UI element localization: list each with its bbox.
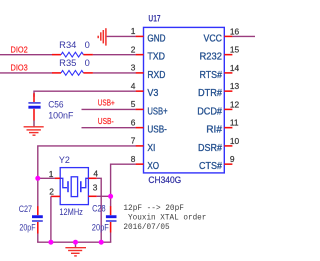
svg-text:4: 4 bbox=[93, 169, 98, 179]
svg-text:8: 8 bbox=[131, 154, 136, 164]
annotation note bbox=[123, 204, 206, 232]
wire crystal pin3 to XO vertical bbox=[97, 195, 111, 197]
wire crystal pin2 down to ground rail bbox=[50, 196, 52, 242]
wire crystal pin1 to XI vertical bbox=[38, 177, 55, 179]
svg-text:3: 3 bbox=[93, 182, 98, 192]
svg-text:USB+: USB+ bbox=[147, 106, 167, 117]
svg-text:20pF: 20pF bbox=[92, 223, 109, 233]
svg-text:16: 16 bbox=[230, 26, 240, 36]
crystal Y2 bbox=[59, 155, 89, 217]
svg-text:Y2: Y2 bbox=[59, 155, 70, 165]
svg-text:2016/07/05: 2016/07/05 bbox=[123, 223, 170, 232]
svg-text:12pF --> 20pF: 12pF --> 20pF bbox=[123, 204, 184, 213]
wire XI pin7 left and down bbox=[38, 146, 136, 207]
wire USB+ to pin 5 bbox=[82, 108, 136, 110]
pin 3 RXD stub bbox=[136, 72, 144, 74]
svg-text:5: 5 bbox=[131, 99, 136, 109]
svg-text:XO: XO bbox=[147, 161, 159, 172]
wire DIO3 left bbox=[0, 72, 52, 74]
pin 5 USB+ stub bbox=[136, 108, 144, 110]
pin 16 VCC stub bbox=[224, 35, 232, 37]
svg-text:DTR#: DTR# bbox=[198, 88, 222, 99]
node junction pin4 to rail bbox=[99, 240, 104, 245]
capacitor C56 bbox=[28, 93, 73, 126]
wire VCC pin16 to right edge bbox=[232, 35, 255, 37]
svg-text:DIO2: DIO2 bbox=[11, 44, 28, 54]
wire USB- to pin 6 bbox=[82, 127, 136, 129]
pin 15 R232 stub bbox=[224, 54, 232, 56]
svg-text:GND: GND bbox=[147, 33, 165, 44]
ground GND1 rotated left of pin 1 bbox=[98, 28, 106, 45]
svg-text:C28: C28 bbox=[92, 204, 106, 214]
svg-text:V3: V3 bbox=[147, 88, 158, 99]
wire R34 to pin 2 bbox=[93, 54, 136, 56]
svg-text:11: 11 bbox=[230, 118, 239, 128]
wire crystal pin4 right and down to ground rail bbox=[97, 178, 101, 242]
pin 8 XO stub bbox=[136, 163, 144, 165]
svg-text:7: 7 bbox=[131, 136, 136, 146]
wire DIO2 left bbox=[0, 54, 52, 56]
node junction XO-crystal pin3 bbox=[108, 194, 113, 199]
crystal pin 2 stub bbox=[51, 195, 60, 197]
svg-text:CH340G: CH340G bbox=[148, 175, 181, 185]
pin 13 DTR# stub bbox=[224, 90, 232, 92]
wire pin1 to ground bbox=[107, 35, 136, 37]
svg-text:9: 9 bbox=[230, 154, 235, 164]
wire C27 down to rail bbox=[37, 234, 39, 243]
svg-text:CTS#: CTS# bbox=[199, 161, 222, 172]
svg-text:10: 10 bbox=[230, 136, 240, 146]
svg-text:USB-: USB- bbox=[98, 116, 114, 126]
pin 7 XI stub bbox=[136, 145, 144, 147]
pin 4 V3 stub bbox=[136, 90, 144, 92]
svg-text:C56: C56 bbox=[48, 99, 63, 109]
svg-text:12MHz: 12MHz bbox=[59, 207, 83, 217]
crystal pin 4 stub bbox=[88, 177, 96, 179]
pin 11 RI# stub bbox=[224, 127, 232, 129]
resistor R35 bbox=[52, 58, 93, 75]
resistor R34 bbox=[52, 40, 93, 57]
svg-text:13: 13 bbox=[230, 81, 240, 91]
svg-text:RXD: RXD bbox=[147, 70, 165, 81]
svg-text:12: 12 bbox=[230, 99, 240, 109]
pin 1 GND stub bbox=[136, 35, 144, 37]
svg-text:14: 14 bbox=[230, 63, 240, 73]
pin 2 TXD stub bbox=[136, 54, 144, 56]
svg-text:RI#: RI# bbox=[206, 125, 222, 136]
crystal pin 1 stub bbox=[55, 177, 61, 179]
svg-text:1: 1 bbox=[49, 169, 54, 179]
pin 6 USB- stub bbox=[136, 127, 144, 129]
wire XO pin8 left and down bbox=[111, 164, 136, 206]
svg-text:100nF: 100nF bbox=[48, 111, 74, 121]
svg-text:R35: R35 bbox=[59, 58, 76, 68]
svg-text:2: 2 bbox=[49, 186, 54, 196]
node junction ground to rail bbox=[73, 240, 78, 245]
svg-text:USB+: USB+ bbox=[98, 98, 115, 108]
ground below C56 bbox=[24, 127, 44, 135]
svg-text:0: 0 bbox=[85, 40, 90, 50]
svg-text:USB-: USB- bbox=[147, 125, 167, 136]
pin 12 DCD# stub bbox=[224, 108, 232, 110]
ground below crystal rail bbox=[65, 242, 86, 256]
svg-text:RTS#: RTS# bbox=[200, 70, 223, 81]
svg-text:3: 3 bbox=[131, 63, 136, 73]
wire V3 pin4 to C56 bbox=[34, 91, 136, 97]
pin 14 RTS# stub bbox=[224, 72, 232, 74]
svg-text:20pF: 20pF bbox=[19, 222, 36, 232]
capacitor C27 bbox=[19, 204, 43, 234]
wire R35 to pin 3 bbox=[93, 72, 136, 74]
svg-text:R34: R34 bbox=[59, 40, 76, 50]
svg-text:15: 15 bbox=[230, 45, 240, 55]
svg-text:U17: U17 bbox=[148, 13, 160, 23]
svg-text:0: 0 bbox=[85, 58, 90, 68]
svg-text:1: 1 bbox=[131, 26, 136, 36]
svg-text:6: 6 bbox=[131, 117, 136, 127]
crystal pin 3 stub bbox=[88, 195, 96, 197]
capacitor C28 bbox=[92, 204, 117, 233]
svg-text:Youxin XTAL order: Youxin XTAL order bbox=[128, 214, 207, 223]
node junction pin2 to rail bbox=[48, 240, 53, 245]
svg-text:C27: C27 bbox=[19, 204, 32, 214]
svg-text:XI: XI bbox=[147, 143, 155, 154]
svg-text:4: 4 bbox=[131, 81, 136, 91]
svg-text:DCD#: DCD# bbox=[197, 106, 222, 117]
svg-text:DIO3: DIO3 bbox=[11, 63, 28, 73]
IC U17 CH340G body bbox=[144, 27, 225, 173]
svg-text:R232: R232 bbox=[200, 52, 223, 63]
svg-text:DSR#: DSR# bbox=[198, 143, 222, 154]
svg-text:2: 2 bbox=[131, 44, 136, 54]
wire C28 down to rail bbox=[110, 233, 112, 243]
pin 10 DSR# stub bbox=[224, 145, 232, 147]
node junction XI-crystal pin1 bbox=[35, 176, 40, 181]
wire bottom ground rail bbox=[37, 241, 111, 243]
svg-text:TXD: TXD bbox=[147, 52, 165, 63]
pin 9 CTS# stub bbox=[224, 163, 232, 165]
svg-text:VCC: VCC bbox=[204, 33, 223, 44]
